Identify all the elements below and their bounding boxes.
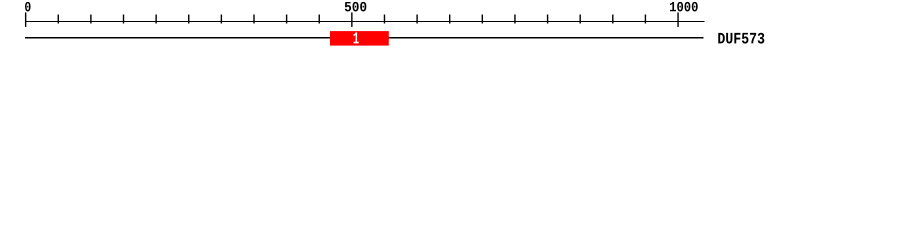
label 500 — [345, 2, 367, 12]
domain label 1 — [354, 32, 359, 43]
background — [0, 0, 900, 58]
label 0 — [25, 2, 31, 12]
label DUF573 — [718, 33, 764, 44]
major tick 0 — [25, 12, 26, 27]
domain box DUF573 — [330, 31, 389, 45]
ruler axis line — [25, 21, 705, 22]
label 1000 — [670, 2, 698, 12]
major tick 1000 — [677, 12, 678, 27]
major tick 500 — [351, 12, 352, 27]
minor ticks every 50 units — [58, 15, 647, 24]
protein backbone line — [25, 37, 704, 39]
